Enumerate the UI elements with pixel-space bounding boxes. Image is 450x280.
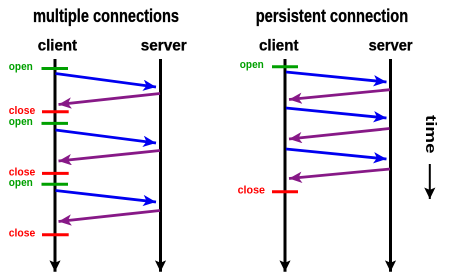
svg-text:close: close	[9, 228, 36, 240]
svg-text:time: time	[422, 115, 439, 154]
svg-text:open: open	[9, 116, 33, 128]
open tick 1 (left)	[42, 67, 69, 70]
svg-text:open: open	[9, 177, 33, 189]
svg-text:server: server	[141, 38, 187, 55]
svg-text:client: client	[259, 38, 299, 55]
server timeline (left)	[159, 59, 162, 272]
svg-text:open: open	[240, 59, 264, 71]
request arrow 2 (left)	[56, 130, 157, 143]
svg-text:multiple connections: multiple connections	[33, 6, 179, 26]
server timeline (right)	[389, 59, 392, 272]
response arrow 2 (left)	[59, 151, 161, 162]
svg-text:server: server	[369, 38, 413, 55]
request arrow 3 (left)	[56, 191, 157, 203]
svg-text:close: close	[238, 185, 265, 197]
request arrow 1 (left)	[56, 74, 157, 88]
close tick 3 (left)	[42, 233, 69, 236]
close tick (right)	[272, 190, 298, 193]
response arrow 2 (right)	[289, 129, 390, 140]
close tick 1 (left)	[42, 110, 69, 113]
response arrow 1 (left)	[59, 94, 161, 105]
open tick 2 (left)	[42, 122, 69, 125]
open tick 3 (left)	[42, 183, 69, 186]
open tick (right)	[272, 65, 298, 68]
svg-text:persistent connection: persistent connection	[256, 6, 409, 26]
request arrow 3 (right)	[286, 149, 387, 159]
svg-text:client: client	[38, 38, 78, 55]
close tick 2 (left)	[42, 172, 69, 175]
response arrow 3 (left)	[59, 211, 161, 222]
time arrow	[429, 164, 431, 199]
request arrow 2 (right)	[286, 108, 387, 118]
svg-text:open: open	[9, 61, 33, 73]
client timeline (left)	[54, 59, 57, 272]
response arrow 1 (right)	[289, 90, 390, 100]
client timeline (right)	[284, 59, 287, 272]
request arrow 1 (right)	[286, 72, 387, 82]
response arrow 3 (right)	[289, 169, 390, 179]
